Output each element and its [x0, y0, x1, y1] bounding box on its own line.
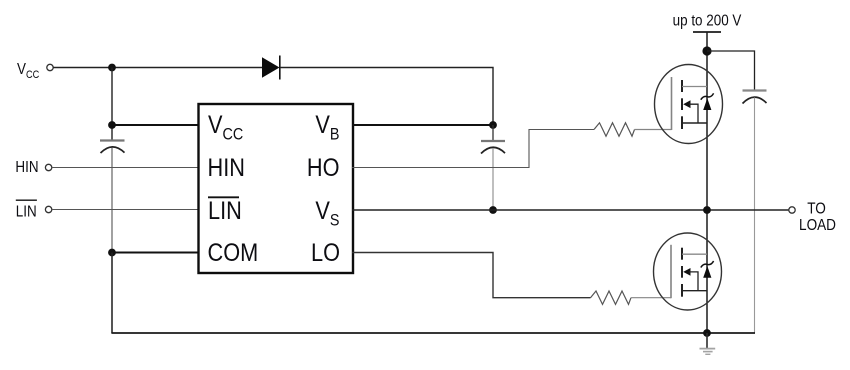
wire VS rail	[352, 209, 789, 211]
capacitor C2 curved plate	[481, 147, 505, 153]
capacitor C1 curved plate	[101, 147, 125, 153]
wire C3 lower lead	[754, 98, 756, 334]
Q2 channel bars	[681, 248, 683, 260]
wire LIN	[52, 209, 199, 211]
wire R1 to Q1 gate	[635, 129, 672, 131]
svg-text:HO: HO	[307, 154, 340, 182]
node VS junction at cap	[489, 206, 497, 214]
Q1 gate bar	[671, 77, 673, 130]
terminal HIN	[45, 164, 51, 170]
wire COM pin	[112, 252, 199, 254]
ground	[706, 333, 708, 348]
wire Vcc pin	[112, 124, 199, 126]
svg-text:LO: LO	[311, 239, 340, 267]
svg-text:COM: COM	[208, 239, 259, 267]
wire R2 to Q2 gate	[631, 297, 671, 299]
Q2 gate bar	[670, 245, 672, 298]
Q1 source lead	[682, 122, 707, 124]
node ground junction	[703, 329, 711, 337]
wire HO to gate resistor	[352, 130, 594, 168]
capacitor C3 curved plate	[743, 97, 767, 103]
transistor Q1 body circle	[655, 65, 723, 144]
Q2 drain lead	[682, 253, 707, 255]
Q2 source lead	[682, 290, 707, 292]
supply rail bar	[693, 31, 721, 33]
terminal TO LOAD	[789, 207, 795, 213]
Q2 body diode	[703, 266, 711, 278]
resistor R2	[591, 291, 632, 304]
resistor R1	[594, 123, 635, 136]
Q1 body arrow	[683, 100, 690, 108]
svg-text:HIN: HIN	[208, 154, 245, 182]
terminal LIN	[45, 206, 51, 212]
Q2 body arrow	[683, 268, 690, 276]
svg-text:LIN: LIN	[16, 204, 37, 221]
transistor Q2 body circle	[654, 233, 722, 310]
svg-text:HIN: HIN	[15, 159, 38, 176]
node Vcc junction	[108, 64, 116, 72]
node supply junction	[702, 46, 711, 55]
node VS midpoint junction	[703, 206, 711, 214]
wire VB pin	[352, 124, 493, 126]
svg-text:up to 200 V: up to 200 V	[673, 13, 742, 30]
capacitor C2 upper lead	[492, 125, 494, 141]
capacitor C2 plate	[481, 140, 505, 142]
wire LO to gate resistor	[352, 253, 591, 298]
diode D1	[262, 57, 280, 77]
wire C2 lower lead	[492, 148, 494, 210]
svg-text:LOAD: LOAD	[799, 217, 836, 234]
wire Vcc to diode	[53, 67, 262, 69]
capacitor C1 plate	[100, 139, 125, 141]
Q1 drain lead	[682, 86, 707, 88]
svg-text:LIN: LIN	[208, 197, 242, 225]
wire main vertical drain-source bus	[706, 51, 708, 348]
wire junction to snubber cap	[707, 51, 755, 91]
node Vcc pin junction	[108, 121, 116, 129]
terminal Vcc	[47, 64, 53, 70]
Q1 body diode	[703, 98, 711, 110]
wire diode to VB corner	[280, 68, 493, 126]
capacitor C3 plate	[743, 89, 767, 91]
Q1 channel bars	[681, 80, 683, 92]
wire rail to junction	[706, 32, 708, 52]
wire HIN	[52, 167, 199, 169]
wire left vertical upper	[111, 68, 113, 141]
wire COM down to ground bus	[111, 253, 113, 334]
svg-text:TO: TO	[807, 201, 826, 218]
node COM junction	[108, 249, 116, 257]
wire left vertical lower	[111, 148, 113, 334]
node VB junction	[489, 121, 497, 129]
wire bottom ground bus	[111, 332, 755, 334]
IC U1 box	[199, 104, 354, 273]
